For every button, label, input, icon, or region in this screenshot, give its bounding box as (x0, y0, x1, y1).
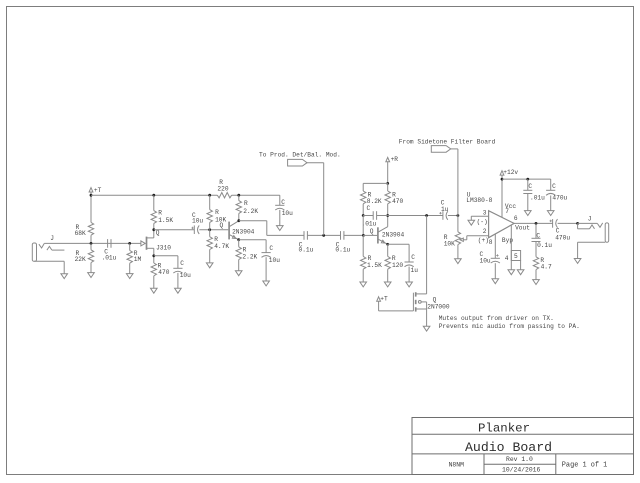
svg-text:From Sidetone Filter Board: From Sidetone Filter Board (399, 138, 496, 145)
svg-text:Planker: Planker (478, 422, 530, 436)
svg-text:.01u: .01u (530, 195, 545, 202)
svg-text:Q: Q (220, 222, 224, 229)
svg-text:C: C (411, 254, 415, 261)
svg-text:10u: 10u (269, 257, 280, 264)
svg-text:J310: J310 (156, 245, 171, 252)
svg-text:120: 120 (392, 262, 403, 269)
svg-text:R: R (368, 255, 372, 262)
svg-text:220: 220 (217, 185, 228, 192)
svg-text:C: C (552, 183, 556, 190)
svg-text:10K: 10K (444, 240, 455, 247)
svg-text:R: R (244, 200, 248, 207)
svg-text:4.7K: 4.7K (214, 243, 229, 250)
svg-text:N8NM: N8NM (449, 462, 465, 469)
svg-text:8: 8 (489, 239, 493, 246)
svg-text:10u: 10u (180, 272, 191, 279)
svg-text:+12v: +12v (503, 169, 518, 176)
svg-text:10u: 10u (192, 218, 203, 225)
svg-text:+R: +R (391, 156, 399, 163)
svg-text:2.2K: 2.2K (243, 208, 258, 215)
svg-text:10/24/2016: 10/24/2016 (502, 466, 541, 473)
svg-text:+T: +T (380, 296, 388, 303)
svg-text:Q: Q (156, 229, 160, 236)
svg-text:C: C (536, 233, 540, 240)
svg-text:.01u: .01u (102, 255, 117, 262)
svg-text:2N3904: 2N3904 (382, 232, 405, 239)
svg-text:C: C (269, 245, 273, 252)
svg-text:J: J (588, 216, 592, 223)
svg-text:470u: 470u (555, 234, 570, 241)
svg-text:R: R (392, 255, 396, 262)
svg-text:LM380-8: LM380-8 (466, 197, 492, 204)
svg-text:0.1u: 0.1u (299, 247, 314, 254)
svg-text:4.7: 4.7 (541, 264, 552, 271)
svg-text:C: C (180, 260, 184, 267)
svg-text:Q: Q (370, 228, 374, 235)
svg-text:2: 2 (483, 228, 487, 235)
svg-text:(+): (+) (478, 237, 489, 244)
svg-text:0.1u: 0.1u (335, 247, 350, 254)
svg-text:.01u: .01u (362, 220, 377, 227)
svg-text:2N3904: 2N3904 (232, 228, 255, 235)
svg-text:3: 3 (483, 209, 487, 216)
svg-text:1u: 1u (441, 206, 449, 213)
svg-text:Rev 1.0: Rev 1.0 (506, 456, 533, 463)
svg-text:Prevents mic audio from passin: Prevents mic audio from passing to PA. (439, 323, 580, 330)
svg-text:5: 5 (514, 253, 518, 260)
svg-text:470: 470 (392, 198, 403, 205)
svg-text:7: 7 (505, 208, 509, 215)
svg-text:470u: 470u (552, 195, 567, 202)
svg-text:4: 4 (505, 255, 509, 262)
svg-text:To Prod. Det/Bal. Mod.: To Prod. Det/Bal. Mod. (259, 152, 341, 159)
svg-text:R: R (158, 210, 162, 217)
svg-text:(-): (-) (477, 219, 488, 226)
svg-text:0.1u: 0.1u (537, 242, 552, 249)
svg-text:6: 6 (514, 215, 518, 222)
svg-text:68K: 68K (75, 230, 86, 237)
svg-text:C: C (556, 227, 560, 234)
svg-text:10u: 10u (480, 257, 491, 264)
svg-text:C: C (367, 205, 371, 212)
svg-text:2.2K: 2.2K (242, 253, 257, 260)
svg-text:+T: +T (94, 187, 102, 194)
svg-text:Mutes output from driver on TX: Mutes output from driver on TX. (439, 315, 554, 322)
svg-text:10u: 10u (282, 210, 293, 217)
svg-text:2N7000: 2N7000 (427, 303, 450, 310)
svg-text:R: R (243, 246, 247, 253)
svg-text:1u: 1u (411, 267, 419, 274)
svg-text:C: C (528, 183, 532, 190)
svg-text:Page 1 of 1: Page 1 of 1 (562, 462, 608, 470)
svg-text:R: R (215, 209, 219, 216)
svg-text:C: C (281, 199, 285, 206)
svg-text:1.5K: 1.5K (367, 262, 382, 269)
svg-text:Audio Board: Audio Board (465, 440, 552, 455)
svg-text:1.5K: 1.5K (158, 217, 173, 224)
svg-text:J: J (50, 235, 54, 242)
svg-text:8.2K: 8.2K (367, 198, 382, 205)
svg-text:470: 470 (158, 269, 169, 276)
svg-text:1M: 1M (134, 256, 142, 263)
svg-text:Vout: Vout (515, 225, 530, 232)
svg-text:22K: 22K (75, 256, 86, 263)
